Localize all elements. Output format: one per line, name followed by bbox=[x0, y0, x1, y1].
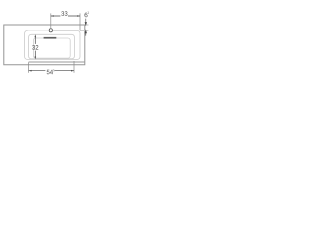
dim 54 line bbox=[29, 70, 74, 72]
basin rim R1 bbox=[25, 30, 80, 59]
rim top extension for 6 dim bbox=[80, 29, 88, 31]
dim 54 extension left bbox=[28, 62, 30, 73]
dim 33 arrow left bbox=[51, 15, 54, 17]
dim 54 arrow left bbox=[29, 70, 32, 72]
dim 33 extension right bbox=[79, 13, 81, 30]
dim 32 label bbox=[32, 45, 38, 50]
tap hole circle bbox=[49, 29, 52, 32]
basin bowl R2 bbox=[29, 34, 75, 59]
front step line bbox=[29, 61, 85, 63]
dim 54 arrow right bbox=[71, 70, 74, 72]
dim 6 upper arrow bbox=[85, 19, 87, 25]
overflow slot bar bbox=[44, 37, 57, 39]
dim 6 superscript bbox=[88, 12, 89, 14]
dim 32 bottom arrow bbox=[35, 57, 37, 60]
dim 33 label bbox=[61, 11, 67, 16]
washbasin outer outline bbox=[4, 25, 85, 65]
dim 54 superscript bbox=[53, 69, 54, 71]
dim 6 label bbox=[85, 13, 88, 18]
basin floor R3 bbox=[33, 38, 70, 58]
dim 54 label bbox=[47, 70, 53, 75]
dim 33 arrow right bbox=[77, 15, 80, 17]
dim 33 line bbox=[51, 15, 80, 17]
dim 6 lower arrow bbox=[85, 30, 87, 35]
dim 54 extension right bbox=[73, 61, 75, 73]
dim 32 line upper bbox=[34, 37, 36, 44]
dim 32 line lower bbox=[34, 51, 36, 57]
rim top left lightening bbox=[28, 29, 49, 31]
dim 33 extension left bbox=[50, 13, 52, 28]
dim 6 top extension bbox=[85, 24, 89, 26]
dim 32 top arrow bbox=[35, 34, 37, 37]
